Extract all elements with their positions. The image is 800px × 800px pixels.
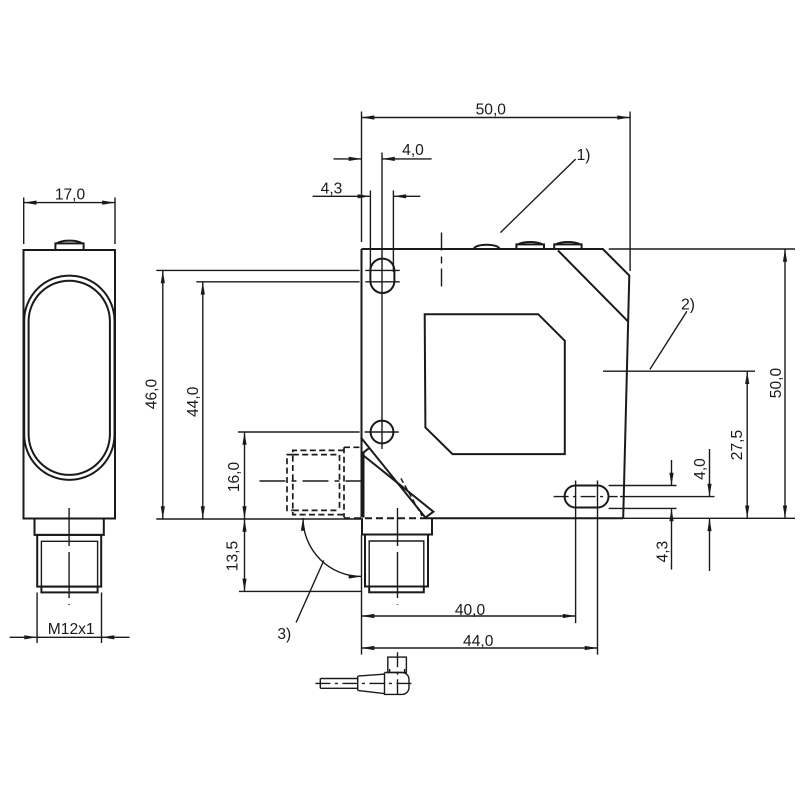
svg-text:46,0: 46,0 [144,379,161,410]
dimension 13,5 extension [239,590,361,592]
svg-text:44,0: 44,0 [463,633,494,650]
dimension 50,0 right line [784,249,786,518]
front body top edge, chamfer and right edge [362,249,630,518]
rotated connector edge B [361,437,426,517]
right hole centerline [554,496,618,498]
extension line hole center right [620,496,715,498]
dimension M12x1 extension lines [37,593,101,644]
dimension 50,0 extension lines [362,112,631,272]
front button 1 base [516,244,544,249]
holes vertical centerline [381,153,383,450]
front body bottom edge solid [427,517,623,519]
dimension 4,0 lines [334,158,362,160]
rotated connector edge A [364,456,434,518]
lower hole tick / 16,0 extension [238,431,399,433]
svg-text:40,0: 40,0 [455,602,486,619]
optical axis mark [441,233,443,288]
svg-text:50,0: 50,0 [768,368,785,399]
side connector neck/thread joint [343,447,345,517]
left view body [24,250,116,519]
front body left edge [361,249,363,518]
hole tick 46 level [156,269,399,271]
label 2) leader [650,311,687,369]
dimension 44,0 line [202,282,204,519]
bottom edge extension left [156,518,363,520]
left view lens outer [24,276,114,480]
svg-text:16,0: 16,0 [226,462,243,493]
label 3) leader [296,561,324,623]
svg-text:4,0: 4,0 [402,142,424,159]
extension line hole bottom right [609,507,677,509]
left view connector end cap [41,587,97,593]
svg-text:4,3: 4,3 [655,541,672,563]
svg-text:1): 1) [577,147,591,164]
dimension 16,0 line [244,432,246,519]
dimension 27,5 line [746,371,748,518]
icon cable [320,679,357,689]
bottom connector neck [362,518,432,534]
front button 1 dome [518,242,542,244]
bottom connector end cap [369,587,424,593]
dimension 13,5 line [244,519,246,591]
left view connector thread [37,535,101,587]
top slotted hole [370,259,394,293]
left view thread relief lines [41,541,97,586]
dimension 17,0 line [24,202,115,204]
svg-text:4,0: 4,0 [692,458,709,480]
icon vertical centerline [397,652,399,698]
svg-text:50,0: 50,0 [476,102,507,119]
icon port collar [390,669,405,673]
extension line bottom right [623,517,795,519]
icon connector body [385,673,410,695]
dimension 4,3 right lines [671,460,673,486]
icon horizontal centerline [315,682,413,684]
left view connector neck [35,519,104,535]
side connector end cap [287,455,293,511]
svg-text:27,5: 27,5 [729,430,746,461]
hole tick 44 level [196,281,399,283]
svg-text:17,0: 17,0 [55,187,86,204]
right hole left tick / 40,0 extension [575,481,577,624]
lower mounting hole [371,421,394,444]
front top dome [474,245,499,249]
lens window octagon [425,314,565,454]
dimension 50,0 line [362,117,631,119]
right slotted hole [565,486,609,508]
front button 2 dome [556,242,580,244]
side connector thread outline [293,450,344,514]
rotated connector hidden edge [401,478,422,516]
extension line hole top right [609,485,677,487]
dimension 4,0 right lines [709,449,711,497]
side connector centerline [260,480,362,482]
label 1) leader [500,159,575,233]
rotation arc arrow [303,518,362,577]
left view top button base [55,243,83,250]
front button 2 base [554,244,581,249]
bracket left edge [364,448,370,518]
side connector neck top [344,446,362,448]
dimension 46,0 line [162,270,164,519]
left view top button dome [57,241,82,244]
extension line 27,5 level [603,370,755,372]
svg-text:3): 3) [277,626,291,643]
top slot edges [370,191,393,273]
icon strain relief taper [358,674,385,694]
dimension M12x1 line [37,636,101,638]
svg-text:2): 2) [681,297,695,314]
extension line top 50 right [609,248,795,250]
svg-text:13,5: 13,5 [225,541,242,572]
left view lens inner [29,281,110,475]
side connector thread relief [293,455,340,511]
bottom left extension vertical [361,535,363,655]
dimension 44,0 bottom line [362,647,598,649]
dimension 40,0 line [362,615,576,617]
icon port [388,657,407,672]
svg-text:M12x1: M12x1 [48,621,95,638]
left view connector centerline [68,508,70,605]
svg-text:4,3: 4,3 [321,180,343,197]
front body bottom edge hidden dashed [344,517,427,519]
dimension 17,0 extension lines [24,198,115,245]
right hole right tick / 44,0 extension [597,481,599,655]
dimension 4,3 lines [313,195,371,197]
bottom connector thread relief [369,541,424,587]
svg-text:44,0: 44,0 [185,386,202,417]
bottom connector centerline [397,508,399,605]
bottom connector thread [365,535,428,587]
front bevel inner edge [558,251,628,322]
